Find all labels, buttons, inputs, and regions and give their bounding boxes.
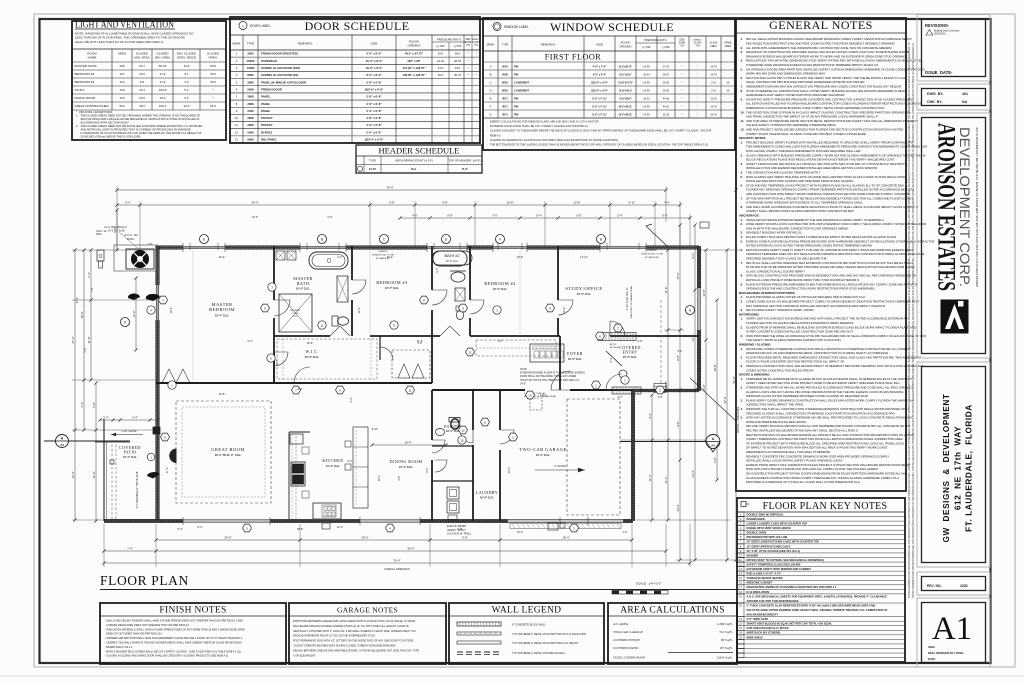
window label circles along top wall: [200, 235, 209, 244]
svg-text:BATHROOM VANITY WITH MIRROR AN: BATHROOM VANITY WITH MIRROR AND CABINET: [747, 567, 812, 571]
svg-text:10'-8": 10'-8": [506, 201, 513, 205]
svg-text:7'-0": 7'-0": [492, 214, 498, 218]
svg-text:8" CONCRETE BLOCK WALL.: 8" CONCRETE BLOCK WALL.: [512, 624, 547, 627]
svg-text:40.75: 40.75: [454, 73, 461, 77]
svg-text:2.: 2.: [741, 325, 744, 329]
svg-text:ATTIC: ATTIC: [610, 343, 617, 346]
svg-text:WALLBOARD APPLIED CHANNEL-SHAP: WALLBOARD APPLIED CHANNEL-SHAPED STUDS @…: [293, 625, 409, 628]
svg-text:44.01: 44.01: [663, 105, 670, 108]
svg-text:10'-4" CLG.: 10'-4" CLG.: [123, 455, 137, 459]
svg-text:95% MAXIMUM DENSITY: 95% MAXIMUM DENSITY: [747, 613, 779, 617]
svg-text:8'-11": 8'-11": [372, 427, 378, 431]
svg-text:6.: 6.: [741, 183, 744, 187]
svg-text:Building Dept Comments: Building Dept Comments: [934, 30, 960, 33]
window left wall: [155, 285, 157, 320]
svg-text:ZONE: ZONE: [465, 42, 472, 44]
section marker A right: [620, 441, 706, 443]
fixture: bath2 tub: [433, 251, 467, 266]
svg-text:A1: A1: [932, 611, 972, 647]
garage apron hatch: [510, 524, 621, 529]
svg-text:SMART VENT BLOCKS 80 SQ.IN. NE: SMART VENT BLOCKS 80 SQ.IN. NET PER CAR …: [747, 622, 833, 626]
svg-text:DEVELOPMENT CORP.: DEVELOPMENT CORP.: [957, 127, 973, 287]
svg-text:8.: 8.: [741, 89, 744, 93]
svg-text:TYPE: TYPE: [502, 43, 509, 47]
svg-text:POLYETHYLENE VAPOR BARRIER OVE: POLYETHYLENE VAPOR BARRIER OVER SELECT W…: [747, 608, 888, 612]
svg-text:14'-0": 14'-0": [520, 382, 526, 385]
svg-text:5'-8": 5'-8": [447, 214, 453, 218]
svg-text:20'-0": 20'-0": [224, 536, 231, 540]
svg-text:10'-4" TO 11'-4" CLG.: 10'-4" TO 11'-4" CLG.: [215, 453, 242, 457]
svg-text:THESE DRAWINGS AND SPECIFICATI: THESE DRAWINGS AND SPECIFICATIONS ARE TH…: [908, 42, 911, 598]
svg-text:REVISIONS-: REVISIONS-: [925, 23, 950, 28]
svg-text:*: *: [697, 88, 698, 92]
svg-text:27'-4": 27'-4": [71, 336, 75, 343]
svg-text:PW: PW: [514, 64, 519, 68]
svg-text:12'-8": 12'-8": [92, 471, 96, 478]
svg-text:- INSULATION MATERIALS SHALL: - INSULATION MATERIALS SHALL HAVE A FLAM…: [104, 628, 245, 631]
wall: top exterior: [156, 246, 183, 249]
driveway diagonal: [690, 378, 736, 421]
svg-text:127: 127: [119, 72, 124, 76]
svg-text:5.: 5.: [741, 175, 744, 179]
svg-text:29.5: 29.5: [438, 52, 444, 56]
svg-text:19'-8": 19'-8": [80, 311, 84, 318]
patio column: [153, 427, 160, 434]
svg-text:4.9: 4.9: [184, 80, 189, 84]
patio plant marks: [147, 472, 160, 478]
svg-text:FOYER: FOYER: [567, 351, 583, 356]
table: AREA CALCULATIONS: [608, 603, 737, 664]
svg-text:4070: 4070: [502, 64, 508, 68]
svg-text:WINDOW SCHEDULE: WINDOW SCHEDULE: [550, 20, 674, 34]
svg-text:30.0: 30.0: [210, 80, 216, 84]
svg-text:ILLUMINATION OF 6 FOOTCANDLES: ILLUMINATION OF 6 FOOTCANDLES (65 LUX) O…: [76, 131, 202, 135]
svg-text:42'-8": 42'-8": [723, 396, 727, 403]
svg-text:5'-8": 5'-8": [713, 457, 717, 463]
svg-text:8'-4": 8'-4": [648, 413, 652, 419]
svg-text:A4: A4: [60, 443, 64, 447]
svg-text:(+) PSF: (+) PSF: [436, 45, 445, 48]
svg-text:12: 12: [235, 130, 239, 134]
svg-text:PW: PW: [514, 72, 519, 76]
svg-text:Y/N: Y/N: [680, 46, 684, 48]
title block: GW DESIGNS block: [917, 362, 990, 567]
svg-text:B: B: [600, 238, 602, 242]
svg-text:11'-8": 11'-8": [664, 287, 668, 294]
svg-text:10'-4" CLG.: 10'-4" CLG.: [446, 260, 459, 263]
door arc: garage side: [500, 430, 514, 444]
svg-text:SECTION R310 AND A WHOLE-HOUSE: SECTION R310 AND A WHOLE-HOUSE MECHANICA…: [76, 117, 199, 121]
svg-text:FIVE SHELVES EQUALLY SPACE: FIVE SHELVES EQUALLY SPACE: [747, 626, 789, 630]
svg-text:VERTICALLY, ATTACHED WITH 1" L: VERTICALLY, ATTACHED WITH 1" LONG NO. 6 …: [293, 630, 416, 633]
svg-text:3'-0" x 8'-0": 3'-0" x 8'-0": [366, 52, 382, 56]
svg-text:(+) PSF: (+) PSF: [642, 46, 651, 49]
fixture: master bath tub: [309, 252, 348, 269]
svg-text:WIRE SHELF: WIRE SHELF: [747, 635, 764, 639]
svg-text:5'-0": 5'-0": [435, 267, 439, 272]
wall tick details: [182, 243, 184, 252]
svg-text:DISHWASHER: DISHWASHER: [747, 517, 765, 521]
interior wall: bath#3 divider: [351, 246, 353, 280]
svg-text:4'-4": 4'-4": [664, 201, 670, 205]
svg-text:5'-4": 5'-4": [177, 527, 182, 531]
svg-text:1.: 1.: [741, 37, 744, 41]
svg-text:10'-4" CLG.: 10'-4" CLG.: [399, 465, 413, 469]
svg-text:73.25"x73.75": 73.25"x73.75": [618, 82, 633, 84]
svg-text:51'-8": 51'-8": [732, 376, 736, 383]
svg-text:16'-0": 16'-0": [517, 531, 523, 534]
svg-text:W.I.C.: W.I.C.: [305, 349, 318, 354]
svg-text:SIZE: SIZE: [371, 42, 378, 46]
svg-text:DESIGNATED HANDICAP ACCESSIBLE: DESIGNATED HANDICAP ACCESSIBLE DOOR PER …: [747, 585, 838, 589]
witness lines top: [116, 186, 118, 250]
interior wall: foyer/garage divider: [559, 336, 561, 390]
svg-text:PANEL: PANEL: [261, 109, 271, 113]
svg-text:(2)2'-6" x 6'-8": (2)2'-6" x 6'-8": [365, 87, 384, 91]
svg-text:REMARKS: REMARKS: [541, 43, 556, 47]
svg-text:LOWER LAUNDRY CAB'S WITH COUNT: LOWER LAUNDRY CAB'S WITH COUNTER TOP: [747, 522, 808, 526]
svg-text:ACCORDANCE WITH SECTION M1507.: ACCORDANCE WITH SECTION M1507.: [76, 121, 130, 125]
table: DOOR SCHEDULE: [230, 17, 480, 143]
svg-text:MIN. AREA: MIN. AREA: [134, 56, 149, 60]
svg-text:26.44: 26.44: [643, 73, 650, 76]
svg-text:17'-0": 17'-0": [165, 467, 169, 474]
svg-text:6068: 6068: [247, 138, 254, 142]
svg-text:12.: 12.: [741, 128, 745, 132]
svg-text:16'-0" x 8'-0": 16'-0" x 8'-0": [366, 59, 383, 63]
window right wall: [697, 288, 699, 330]
patio screen dashed: [111, 440, 113, 519]
svg-text:B: B: [321, 238, 323, 242]
svg-text:SLIDING GLASS DOOR (SS): SLIDING GLASS DOOR (SS): [261, 73, 298, 77]
wall: right exterior upper: [698, 246, 701, 288]
svg-text:FLAT: FLAT: [369, 167, 376, 171]
svg-text:FLOOR PLAN KEY NOTES: FLOOR PLAN KEY NOTES: [763, 501, 888, 512]
svg-text:A.H.U. SEE MECHANICAL SHEETS F: A.H.U. SEE MECHANICAL SHEETS FOR EQUIPME…: [747, 594, 888, 598]
svg-text:103.8: 103.8: [159, 88, 167, 92]
interior witness verticals: [192, 250, 194, 381]
svg-text:10.6: 10.6: [139, 96, 145, 100]
svg-text:OVERHEAD: OVERHEAD: [261, 59, 277, 63]
svg-text:1.: 1.: [741, 140, 744, 144]
svg-text:10'-4" CLG.: 10'-4" CLG.: [480, 496, 494, 500]
svg-text:18'-0": 18'-0": [361, 536, 368, 540]
svg-text:1.: 1.: [741, 347, 744, 351]
svg-text:10: 10: [461, 428, 465, 432]
svg-text:PRESSURE RAT'G: PRESSURE RAT'G: [644, 38, 667, 42]
svg-text:NEAL ARONSON AR # 95394: NEAL ARONSON AR # 95394: [928, 651, 964, 655]
svg-text:30 INCHES (762mm) ABOVE THE FL: 30 INCHES (762mm) ABOVE THE FLOOR LEVEL.: [76, 135, 142, 139]
svg-text:10.4: 10.4: [139, 88, 145, 92]
svg-text:2.: 2.: [741, 300, 744, 304]
svg-text:10'-4" CLG.: 10'-4" CLG.: [568, 357, 582, 361]
svg-text:AROUND THE UNIT FOR MAINTENANC: AROUND THE UNIT FOR MAINTENANCE.: [747, 599, 800, 603]
svg-text:10'-4" CLG.: 10'-4" CLG.: [215, 313, 229, 317]
svg-text:40.5"x48.12": 40.5"x48.12": [619, 113, 633, 116]
svg-text:26.06: 26.06: [663, 81, 670, 84]
svg-text:27.03: 27.03: [663, 65, 670, 68]
svg-text:OVERALL DIMENSION: OVERALL DIMENSION: [384, 568, 409, 571]
svg-text:F: F: [490, 104, 492, 108]
svg-text:MEDICINE CABINET: MEDICINE CABINET: [747, 581, 773, 585]
svg-text:76'-4": 76'-4": [393, 559, 400, 563]
svg-text:19'-8": 19'-8": [713, 364, 717, 371]
svg-text:Y/N: Y/N: [466, 45, 470, 47]
svg-text:10'-4" CLG.: 10'-4" CLG.: [296, 287, 310, 291]
svg-text:ARONSON ESTATES: ARONSON ESTATES: [933, 123, 960, 291]
svg-text:IMPACT: IMPACT: [693, 39, 702, 42]
fixture: closet rods bedroom3: [392, 350, 430, 378]
revision triangle marker: [926, 29, 933, 35]
svg-text:TOTAL UNDER ROOF: TOTAL UNDER ROOF: [613, 656, 645, 660]
interior wall: bedroom2 right: [557, 246, 559, 300]
svg-text:PARTITIONS BETWEEN GARAGE AND: PARTITIONS BETWEEN GARAGE AND LIVING ARE…: [293, 620, 415, 623]
svg-text:3080: 3080: [247, 52, 254, 56]
svg-text:5.3: 5.3: [184, 96, 189, 100]
title block: sheet number box A1: [917, 598, 990, 667]
svg-text:NOTE:: NOTE:: [520, 368, 528, 371]
svg-text:15'-0": 15'-0": [676, 272, 680, 279]
svg-text:55'-4": 55'-4": [407, 547, 414, 551]
svg-text:2'-0": 2'-0": [617, 395, 622, 399]
svg-text:DOUBLE OVEN: DOUBLE OVEN: [747, 531, 767, 535]
svg-text:5'-4": 5'-4": [536, 214, 542, 218]
svg-text:ACCESS: ACCESS: [610, 346, 620, 349]
svg-text:3.: 3.: [741, 398, 744, 402]
svg-text:E: E: [203, 238, 205, 242]
svg-text:551 Sq.Ft.: 551 Sq.Ft.: [719, 630, 733, 634]
svg-text:PW: PW: [514, 104, 519, 108]
svg-text:11: 11: [320, 323, 323, 327]
svg-text:*: *: [697, 112, 698, 116]
svg-text:4'-0" SGD MIN EL 4" TOP OF SLA: 4'-0" SGD MIN EL 4" TOP OF SLAB: [136, 471, 139, 508]
svg-text:8.: 8.: [741, 205, 744, 209]
title block: REVISIONS box: [917, 15, 990, 82]
svg-text:TYPE: TYPE: [247, 42, 254, 46]
svg-text:30.0: 30.0: [438, 73, 444, 77]
table: FLOOR PLAN KEY NOTES: [737, 498, 905, 662]
label: BATH #2 oval: [432, 251, 472, 265]
svg-text:NA: NA: [962, 100, 968, 104]
svg-text:*: *: [697, 72, 698, 76]
svg-text:10'-4" CLG.: 10'-4" CLG.: [536, 453, 550, 457]
svg-text:24.00: 24.00: [643, 81, 650, 84]
svg-text:30.0: 30.0: [210, 72, 216, 76]
wall: covered patio left: [103, 419, 105, 521]
svg-text:EGRESS: EGRESS: [378, 251, 388, 253]
ceiling dashed great room inner: [182, 407, 265, 497]
svg-text:20'-0": 20'-0": [507, 467, 511, 474]
svg-text:21.0: 21.0: [438, 66, 444, 70]
svg-text:2668: 2668: [247, 123, 254, 127]
svg-text:8'-4": 8'-4": [198, 526, 203, 529]
svg-text:R-11 INSULATION: R-11 INSULATION: [747, 590, 770, 594]
svg-text:7'-4": 7'-4": [91, 287, 94, 292]
svg-text:5040: 5040: [502, 72, 508, 76]
svg-text:4.: 4.: [741, 407, 744, 411]
svg-text:16'-4": 16'-4": [169, 307, 173, 314]
svg-text:SLIDING GLASS DOOR (SSS): SLIDING GLASS DOOR (SSS): [261, 66, 300, 70]
top-right roof diagonal: [646, 226, 668, 247]
table: HEADER SCHEDULE: [356, 145, 482, 173]
table: WINDOW SCHEDULE: [483, 18, 735, 150]
svg-text:TWO-CAR GARAGE: TWO-CAR GARAGE: [519, 447, 566, 452]
svg-text:B: B: [490, 72, 492, 76]
svg-text:2. THE GLAZED AREAS NEED NOT: 2. THE GLAZED AREAS NEED NOT BE INSTALLE…: [76, 124, 202, 128]
svg-text:11'-8": 11'-8": [87, 337, 91, 344]
svg-text:*: *: [681, 64, 682, 68]
svg-text:10'-8": 10'-8": [573, 201, 580, 205]
svg-text:AND ARTIFICIAL LIGHT IS PROVID: AND ARTIFICIAL LIGHT IS PROVIDED THAT IS…: [76, 128, 191, 132]
svg-text:12'-8": 12'-8": [702, 289, 706, 296]
entry steps right: [654, 384, 666, 393]
svg-text:1.: 1.: [741, 317, 744, 321]
svg-text:6'-1": 6'-1": [337, 255, 342, 259]
svg-text:TANKLESS WATER HEATER: TANKLESS WATER HEATER: [747, 576, 783, 580]
wall: left exterior: [156, 246, 159, 285]
svg-text:4'-0" WIDE GATE: 4'-0" WIDE GATE: [747, 617, 769, 621]
door arc: WIC: [274, 352, 288, 366]
svg-text:8.: 8.: [741, 274, 744, 278]
svg-text:21.04: 21.04: [437, 59, 444, 63]
svg-text:OPENING: OPENING: [408, 44, 421, 48]
svg-text:CHK BY-: CHK BY-: [927, 100, 944, 104]
door arc: bedroom2: [558, 300, 573, 315]
svg-text:3071: 3071: [502, 104, 508, 108]
svg-text:5'-4": 5'-4": [248, 340, 253, 343]
svg-text:22.36: 22.36: [710, 97, 717, 100]
svg-text:DOOR LABEL: DOOR LABEL: [250, 24, 271, 28]
svg-text:CLASS: CLASS: [472, 41, 480, 44]
svg-text:5.2: 5.2: [184, 88, 189, 92]
svg-text:10: 10: [460, 438, 464, 442]
svg-text:6'-11": 6'-11": [629, 201, 636, 205]
svg-text:401: 401: [962, 92, 968, 96]
svg-text:COVERED ENTRY: COVERED ENTRY: [613, 638, 641, 642]
svg-text:GENERAL NOTES: GENERAL NOTES: [769, 18, 873, 32]
svg-text:- SHOWER AND BATHTUB SHALL HA: - SHOWER AND BATHTUB SHALL HAVE NON-ABSO…: [104, 637, 243, 640]
svg-text:24.00: 24.00: [643, 89, 650, 92]
svg-text:11: 11: [235, 123, 238, 127]
svg-text:10'-4" CLG.: 10'-4" CLG.: [493, 287, 507, 291]
svg-text:*: *: [681, 104, 682, 108]
black wedge markers near patio wall: [128, 293, 140, 300]
svg-text:LAUNDRY: LAUNDRY: [476, 490, 498, 495]
svg-text:DINING ROOM: DINING ROOM: [75, 96, 96, 100]
svg-text:13: 13: [528, 393, 532, 397]
svg-text:41.5"x48.5": 41.5"x48.5": [619, 97, 631, 100]
dashed outline: WIC shelving: [277, 339, 377, 379]
table: GARAGE NOTES: [289, 603, 446, 664]
svg-text:AREA: AREA: [710, 45, 717, 48]
svg-text:24" DEEP LOWER KITCHEN CAB'S W: 24" DEEP LOWER KITCHEN CAB'S WITH COUNTE…: [747, 540, 820, 544]
svg-text:TOP OF HEADER (A.F.F.): TOP OF HEADER (A.F.F.): [448, 159, 481, 163]
table: LIGHT AND VENTILATION: [72, 21, 226, 140]
fixture: kitchen sink counter markers: [302, 447, 309, 454]
svg-text:WINDOW LABEL: WINDOW LABEL: [504, 25, 529, 29]
svg-text:5068: 5068: [247, 87, 254, 91]
svg-text:6.: 6.: [741, 248, 744, 252]
svg-text:1.: 1.: [741, 377, 744, 381]
svg-text:IMPACT: IMPACT: [472, 38, 481, 41]
svg-text:PANEL: PANEL: [261, 95, 271, 99]
svg-text:CASEMENT: CASEMENT: [514, 80, 529, 84]
svg-text:10'-4" CLG.: 10'-4" CLG.: [305, 355, 319, 359]
svg-text:2'-4": 2'-4": [103, 416, 109, 420]
leader lines misc: [119, 232, 140, 250]
svg-text:6'-8": 6'-8": [389, 201, 395, 205]
svg-text:4'-0" x 7'-0": 4'-0" x 7'-0": [593, 65, 607, 68]
svg-text:2868: 2868: [247, 116, 254, 120]
svg-text:AREA CALCULATIONS: AREA CALCULATIONS: [620, 606, 725, 616]
svg-text:9'-8": 9'-8": [676, 421, 680, 427]
svg-text:23.7: 23.7: [139, 64, 145, 68]
table: FINISH NOTES: [100, 603, 286, 664]
svg-text:9.9: 9.9: [140, 80, 145, 84]
svg-text:106.25" x 106.75": 106.25" x 106.75": [403, 73, 427, 77]
circled keynote markers: [268, 283, 276, 291]
svg-text:STUDY: STUDY: [75, 88, 85, 92]
svg-text:FT. LAUDERDALE, FLORIDA: FT. LAUDERDALE, FLORIDA: [965, 404, 974, 532]
svg-text:*: *: [681, 80, 682, 84]
svg-text:8'-0" x 8'-0": 8'-0" x 8'-0": [366, 73, 382, 77]
svg-text:28.45: 28.45: [454, 59, 461, 63]
sliding glass doors bottom wall: [183, 519, 270, 521]
svg-text:(-) PSF: (-) PSF: [662, 46, 670, 49]
svg-text:2'-6" x 6'-8": 2'-6" x 6'-8": [366, 123, 382, 127]
svg-text:5'-8": 5'-8": [576, 214, 582, 218]
logo: ARONSON ESTATES A square: [941, 300, 968, 333]
svg-text:- THE BOTTOM EDGE OF THE GLA: - THE BOTTOM EDGE OF THE GLAZING IS LESS…: [487, 143, 708, 147]
title block: DWG/CHK box: [917, 84, 990, 110]
svg-text:24.00: 24.00: [643, 105, 650, 108]
patio dim line: [100, 419, 158, 421]
svg-text:9'-0": 9'-0": [275, 359, 279, 364]
svg-text:D: D: [489, 88, 491, 92]
roof overhang dashed: [660, 300, 662, 388]
door arc: powder: [432, 440, 445, 453]
svg-text:5'-8": 5'-8": [498, 340, 503, 343]
svg-text:2.: 2.: [741, 355, 744, 359]
svg-text:BEDROOM #2: BEDROOM #2: [75, 72, 95, 76]
svg-text:217.25" x 106.75": 217.25" x 106.75": [403, 66, 427, 70]
svg-text:10: 10: [235, 116, 239, 120]
dashed outline: garage slab: [567, 399, 620, 515]
svg-text:PATIO: PATIO: [124, 450, 137, 455]
svg-text:ENTRY: ENTRY: [622, 350, 637, 355]
svg-text:- GLAZING IN HAZARDOUS LOCAT: - GLAZING IN HAZARDOUS LOCATION-FACTOR R…: [487, 138, 618, 142]
svg-text:ROUGH: ROUGH: [621, 41, 631, 45]
svg-text:10.: 10.: [741, 110, 745, 114]
svg-text:2.: 2.: [741, 222, 744, 226]
svg-text:3.: 3.: [741, 50, 744, 54]
fixture: powder toilet and sink: [451, 419, 459, 429]
svg-text:24.00: 24.00: [643, 65, 650, 68]
svg-text:2'-8": 2'-8": [148, 243, 153, 246]
patio section line entry: [95, 441, 130, 443]
svg-text:10'-0": 10'-0": [252, 216, 258, 219]
svg-text:9.: 9.: [741, 282, 744, 286]
svg-text:1-1/2" SLOPE: 1-1/2" SLOPE: [122, 430, 137, 433]
svg-text:5'-4": 5'-4": [132, 416, 138, 420]
svg-text:124: 124: [119, 80, 124, 84]
svg-text:3.: 3.: [741, 162, 744, 166]
extra hex markers: [336, 386, 345, 394]
svg-text:MASTER SUITE: MASTER SUITE: [75, 64, 97, 68]
svg-text:DATE-: DATE-: [928, 657, 936, 661]
svg-text:6'-4": 6'-4": [125, 201, 131, 205]
svg-text:BATH #2: BATH #2: [444, 254, 459, 258]
